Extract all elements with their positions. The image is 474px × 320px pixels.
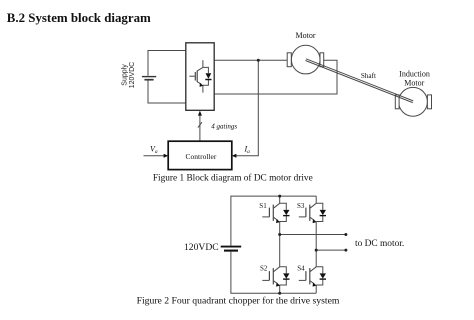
svg-text:B.2 System block diagram: B.2 System block diagram xyxy=(7,11,151,25)
svg-text:Ia: Ia xyxy=(244,145,251,156)
svg-text:S4: S4 xyxy=(297,264,305,272)
svg-text:Controller: Controller xyxy=(185,152,216,161)
svg-text:S3: S3 xyxy=(297,202,305,210)
svg-text:4 gatings: 4 gatings xyxy=(211,123,237,131)
svg-text:S2: S2 xyxy=(260,264,268,272)
svg-text:120VDC: 120VDC xyxy=(129,62,136,88)
svg-text:to DC motor.: to DC motor. xyxy=(355,239,404,249)
svg-text:Motor: Motor xyxy=(296,31,316,40)
svg-text:Figure 2 Four quadrant chopper: Figure 2 Four quadrant chopper for the d… xyxy=(137,295,340,306)
svg-text:Figure 1 Block diagram of DC m: Figure 1 Block diagram of DC motor drive xyxy=(153,173,313,184)
svg-text:Shaft: Shaft xyxy=(361,72,376,80)
svg-text:Induction: Induction xyxy=(399,70,430,79)
svg-text:Motor: Motor xyxy=(404,79,424,88)
svg-text:S1: S1 xyxy=(259,202,267,210)
svg-text:Supply: Supply xyxy=(122,64,129,86)
svg-text:120VDC: 120VDC xyxy=(184,242,219,253)
svg-text:Va: Va xyxy=(150,145,158,156)
